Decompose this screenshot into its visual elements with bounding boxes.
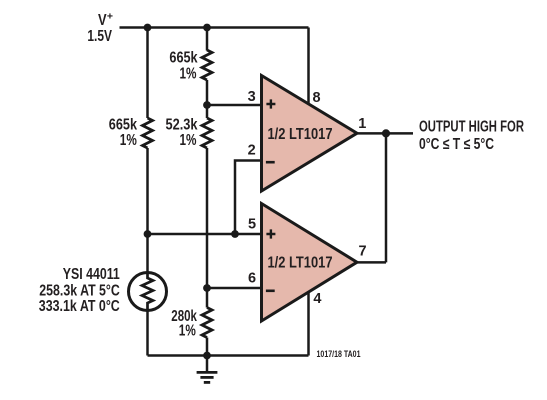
junction thermistor / pin 5 wire: [144, 230, 152, 238]
junction pin 6 node: [203, 284, 211, 292]
thermistor YSI 44011: [129, 273, 167, 311]
svg-text:+: +: [107, 10, 113, 22]
junction pin 2 / pin 5 node: [231, 230, 239, 238]
svg-text:3: 3: [248, 89, 256, 105]
svg-text:5: 5: [248, 217, 256, 233]
junction V+ / left branch: [144, 24, 152, 32]
wire 280k to ground node: [206, 338, 209, 356]
svg-text:1/2 LT1017: 1/2 LT1017: [268, 126, 333, 143]
svg-text:1%: 1%: [180, 65, 197, 82]
svg-text:6: 6: [248, 271, 256, 287]
wire left vertical to thermistor: [146, 28, 149, 119]
wire pin 3 input: [207, 104, 263, 107]
resistor 665k top: [202, 50, 212, 80]
resistor 665k left: [143, 118, 153, 148]
svg-text:258.3k AT 5°C: 258.3k AT 5°C: [39, 283, 120, 300]
svg-text:YSI 44011: YSI 44011: [63, 266, 120, 283]
wire pin 8 vertical: [307, 28, 310, 106]
svg-text:8: 8: [312, 90, 320, 106]
wire bottom rail: [148, 354, 309, 357]
svg-text:1%: 1%: [180, 132, 197, 149]
wire output of U1b: [355, 261, 386, 264]
svg-text:V: V: [98, 12, 107, 29]
svg-text:1.5V: 1.5V: [87, 28, 112, 45]
wire ground stub: [206, 356, 209, 372]
junction pin 3 node: [203, 101, 211, 109]
svg-text:OUTPUT HIGH FOR: OUTPUT HIGH FOR: [419, 119, 524, 136]
svg-text:1/2 LT1017: 1/2 LT1017: [268, 254, 333, 271]
wire thermistor bottom lead: [146, 310, 149, 355]
svg-text:1%: 1%: [179, 323, 196, 340]
wire top rail V+: [120, 26, 309, 29]
wire middle vertical segment top: [206, 28, 209, 51]
svg-text:1%: 1%: [120, 132, 137, 149]
svg-text:1: 1: [358, 116, 366, 132]
svg-text:0°C ≤ T ≤ 5°C: 0°C ≤ T ≤ 5°C: [419, 136, 494, 153]
ground: [197, 372, 218, 382]
wire output bus vertical: [385, 133, 388, 262]
op-amp U1a 1/2 LT1017: [262, 76, 358, 192]
svg-text:2: 2: [248, 143, 256, 159]
resistor 280k: [202, 308, 212, 338]
wire pin 5 input: [148, 233, 264, 236]
wire output of U1a: [355, 132, 413, 135]
wire left vertical below 665k: [146, 148, 149, 273]
wire between 52.3k and 280k: [206, 148, 209, 308]
svg-text:4: 4: [313, 291, 321, 307]
svg-text:1017/18 TA01: 1017/18 TA01: [317, 349, 361, 359]
op-amp U1b 1/2 LT1017: [262, 204, 358, 322]
resistor 52.3k: [202, 118, 212, 148]
svg-text:665k: 665k: [169, 50, 198, 67]
svg-text:7: 7: [358, 244, 366, 260]
junction V+ / middle branch: [203, 24, 211, 32]
junction output node: [382, 129, 390, 137]
wire between 665k and 52.3k: [206, 80, 209, 118]
svg-text:665k: 665k: [109, 116, 138, 133]
wire pin 2 input L-shape: [235, 161, 263, 235]
wire pin 6 input: [207, 287, 263, 290]
wire pin 4 vertical: [307, 291, 310, 356]
svg-text:333.1k AT 0°C: 333.1k AT 0°C: [39, 298, 120, 315]
junction ground node: [203, 352, 211, 360]
svg-text:52.3k: 52.3k: [166, 116, 198, 133]
